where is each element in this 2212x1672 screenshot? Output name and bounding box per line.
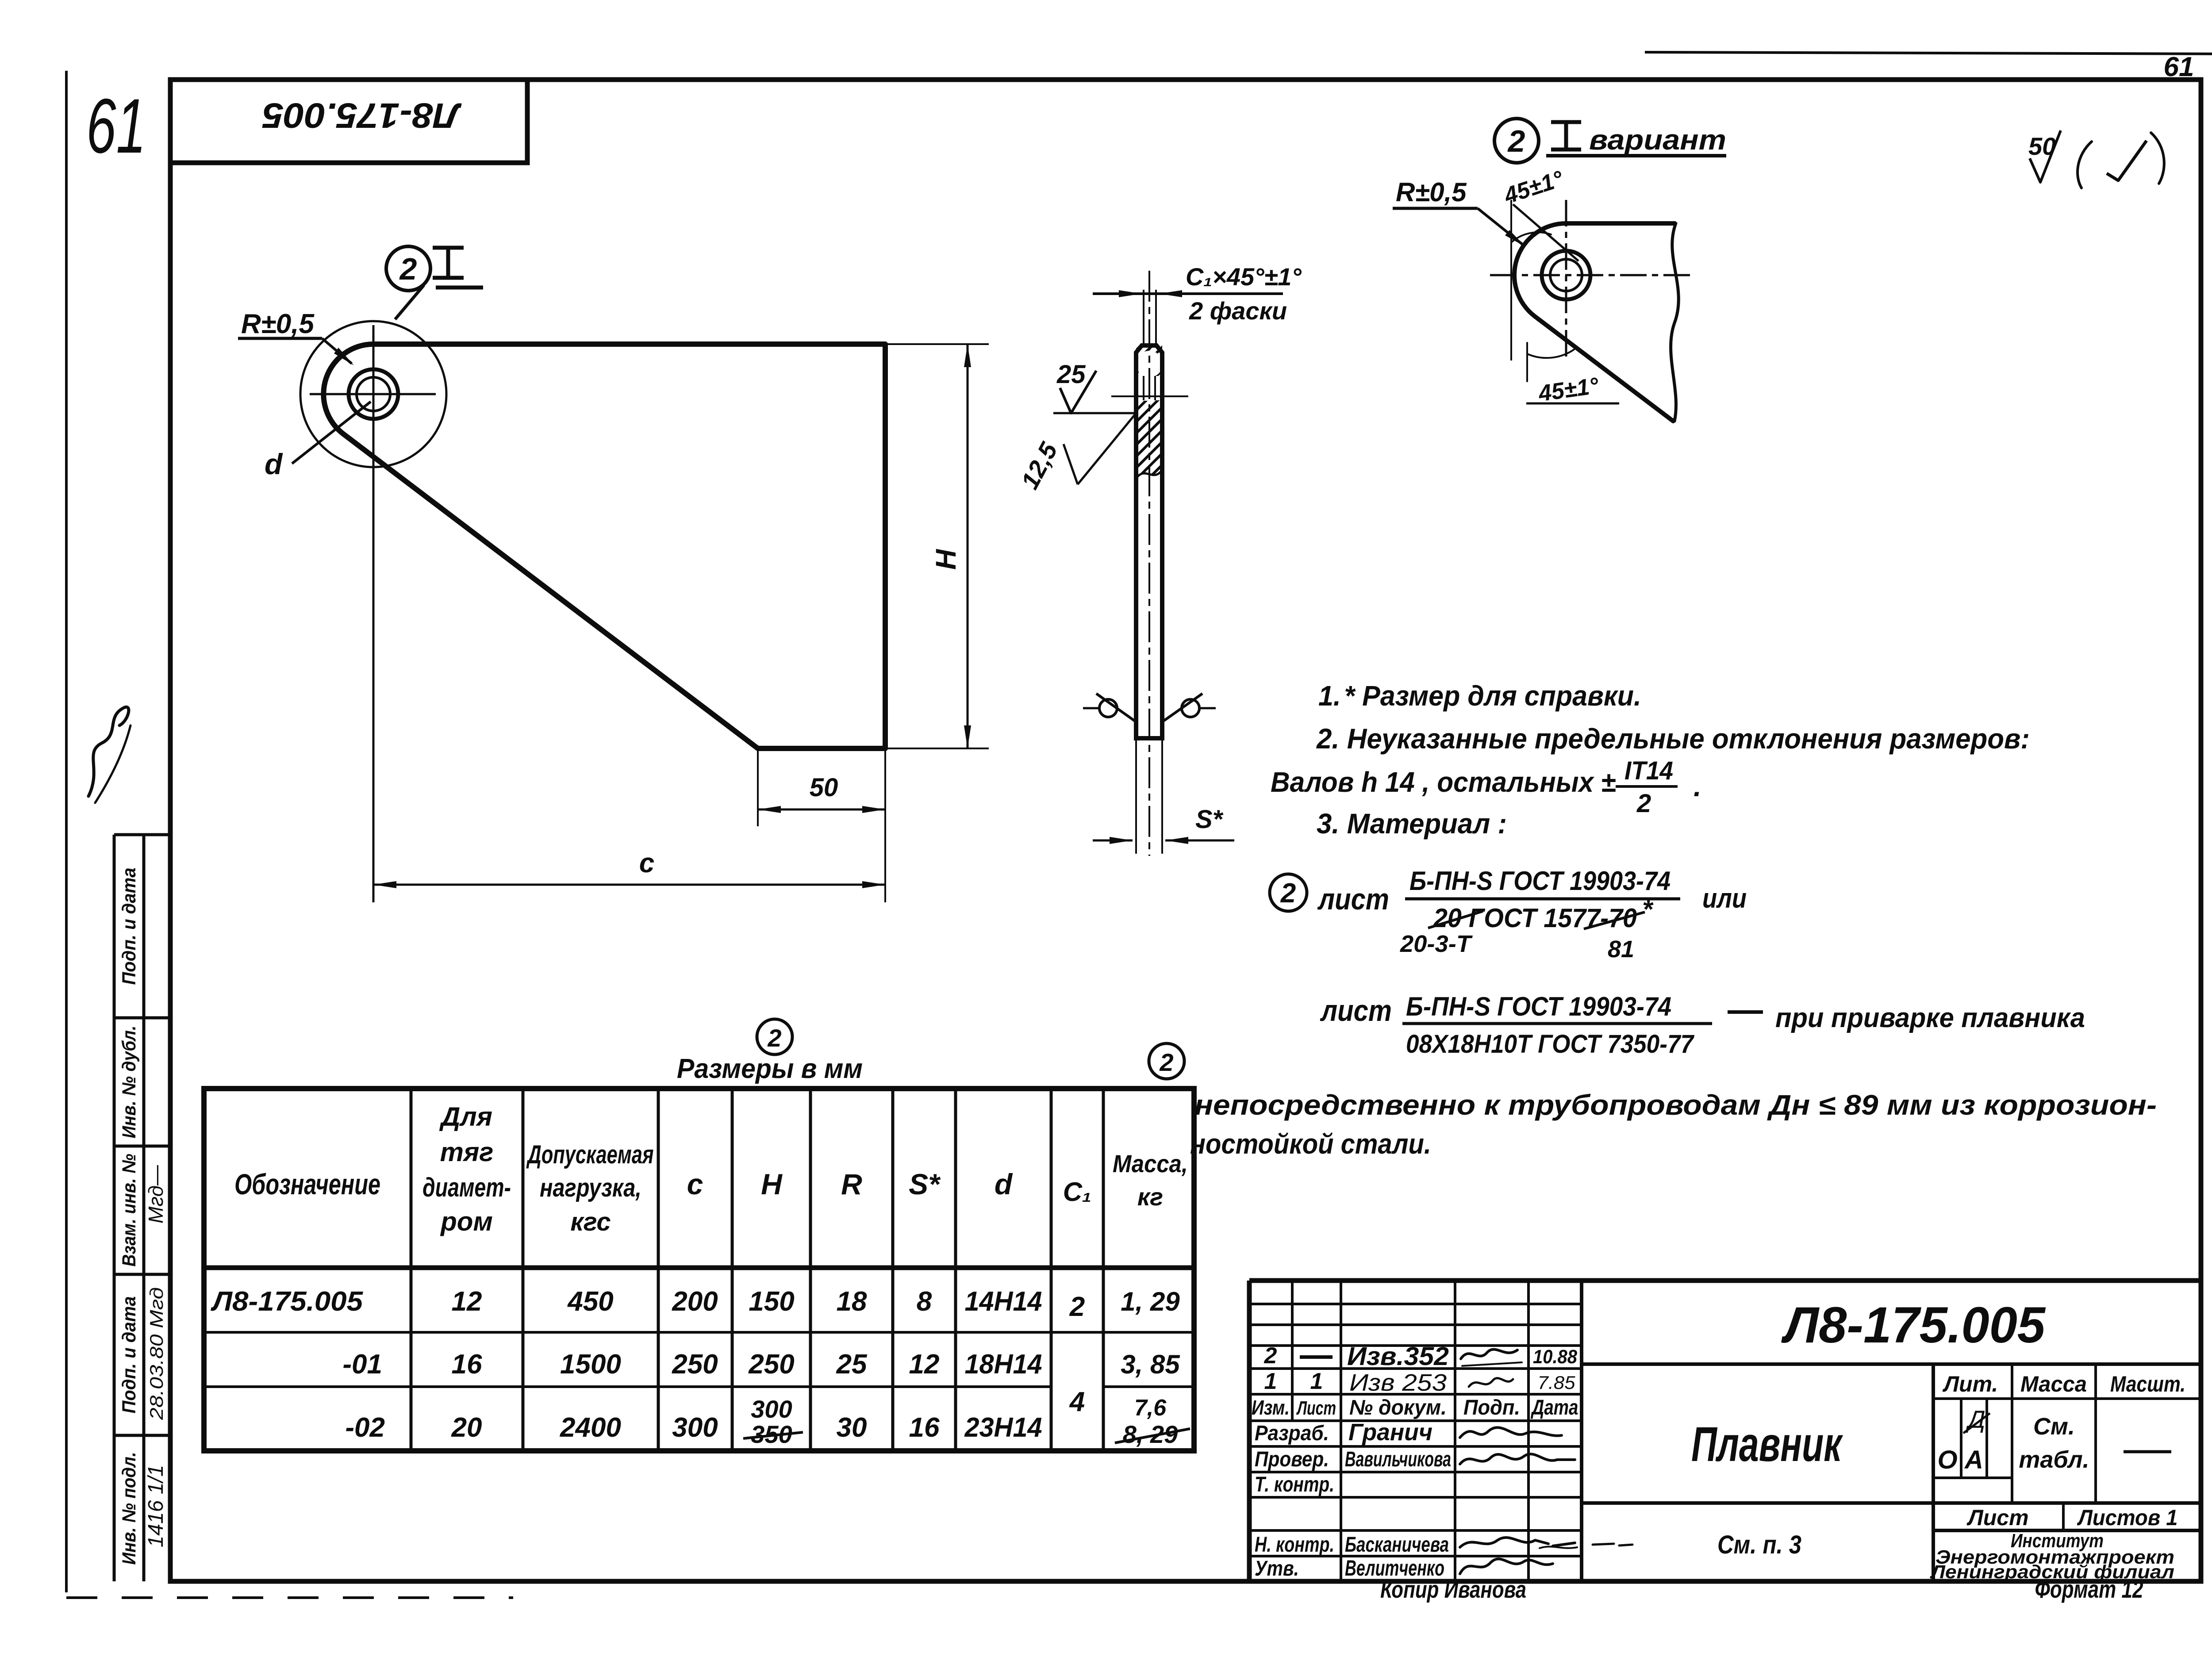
svg-text:Л8-175.005: Л8-175.005 bbox=[211, 1286, 364, 1317]
svg-text:C₁×45°±1°: C₁×45°±1° bbox=[1186, 263, 1302, 291]
svg-text:Дата: Дата bbox=[1530, 1396, 1578, 1419]
svg-text:Инв. № подл.: Инв. № подл. bbox=[119, 1452, 140, 1565]
svg-text:7,6: 7,6 bbox=[1134, 1395, 1167, 1421]
svg-text:Допускаемая: Допускаемая bbox=[526, 1140, 654, 1169]
svg-text:Провер.: Провер. bbox=[1255, 1448, 1329, 1471]
svg-text:Изв 253: Изв 253 bbox=[1349, 1369, 1447, 1396]
svg-text:18Н14: 18Н14 bbox=[965, 1349, 1042, 1380]
svg-text:Лист: Лист bbox=[1296, 1397, 1336, 1419]
svg-text:при приварке плавника: при приварке плавника bbox=[1775, 1003, 2085, 1033]
svg-text:кг: кг bbox=[1137, 1183, 1163, 1211]
svg-text:ром: ром bbox=[440, 1207, 493, 1236]
svg-text:Размеры в мм: Размеры в мм bbox=[677, 1054, 863, 1084]
svg-text:20: 20 bbox=[451, 1412, 482, 1443]
svg-text:20-3-Т: 20-3-Т bbox=[1400, 931, 1473, 957]
svg-text:45±1°: 45±1° bbox=[1536, 373, 1601, 407]
svg-text:табл.: табл. bbox=[2019, 1446, 2089, 1473]
svg-text:1.* Размер для справки.: 1.* Размер для справки. bbox=[1318, 680, 1641, 712]
svg-text:S*: S* bbox=[909, 1168, 941, 1200]
svg-text:12,5: 12,5 bbox=[1015, 437, 1063, 494]
svg-text:25: 25 bbox=[1056, 360, 1086, 389]
svg-text:.: . bbox=[1694, 771, 1701, 802]
svg-text:№ докум.: № докум. bbox=[1349, 1396, 1447, 1419]
svg-text:тяг: тяг bbox=[440, 1137, 494, 1167]
svg-text:Копир Иванова: Копир Иванова bbox=[1380, 1576, 1526, 1603]
svg-text:3, 85: 3, 85 bbox=[1121, 1350, 1180, 1379]
svg-text:S*: S* bbox=[1195, 805, 1224, 834]
svg-text:2: 2 bbox=[399, 252, 417, 286]
svg-text:8, 29: 8, 29 bbox=[1123, 1420, 1178, 1448]
svg-text:нагрузка,: нагрузка, bbox=[540, 1173, 641, 1202]
svg-text:*: * bbox=[1642, 894, 1654, 924]
svg-text:Инв. № дубл.: Инв. № дубл. bbox=[119, 1026, 140, 1139]
svg-text:12: 12 bbox=[452, 1286, 482, 1317]
svg-text:Обозначение: Обозначение bbox=[234, 1168, 380, 1200]
svg-text:16: 16 bbox=[909, 1412, 940, 1443]
svg-text:1, 29: 1, 29 bbox=[1121, 1287, 1180, 1316]
svg-text:200: 200 bbox=[672, 1286, 718, 1317]
svg-text:16: 16 bbox=[452, 1349, 482, 1380]
svg-text:Подп.: Подп. bbox=[1463, 1396, 1520, 1419]
svg-text:Для: Для bbox=[439, 1102, 492, 1131]
svg-text:Лит.: Лит. bbox=[1943, 1372, 1998, 1396]
svg-text:лист: лист bbox=[1320, 994, 1392, 1028]
svg-text:2 фаски: 2 фаски bbox=[1189, 297, 1287, 325]
svg-text:18: 18 bbox=[837, 1286, 867, 1317]
svg-text:Подп. и дата: Подп. и дата bbox=[119, 868, 140, 985]
svg-text:Лист: Лист bbox=[1966, 1505, 2028, 1530]
svg-text:лист: лист bbox=[1317, 882, 1389, 916]
svg-text:R±0,5: R±0,5 bbox=[1396, 177, 1467, 207]
svg-text:диамет-: диамет- bbox=[422, 1173, 511, 1202]
svg-text:Басканичева: Басканичева bbox=[1345, 1533, 1449, 1557]
svg-text:Разраб.: Разраб. bbox=[1255, 1422, 1329, 1445]
svg-text:50: 50 bbox=[810, 773, 838, 802]
svg-text:См.: См. bbox=[2033, 1413, 2075, 1440]
svg-text:1: 1 bbox=[1264, 1369, 1277, 1394]
svg-text:Н. контр.: Н. контр. bbox=[1255, 1533, 1334, 1557]
svg-text:2: 2 bbox=[1069, 1292, 1085, 1322]
svg-text:7.85: 7.85 bbox=[1538, 1372, 1576, 1393]
svg-text:2: 2 bbox=[1159, 1048, 1173, 1076]
svg-text:Утв.: Утв. bbox=[1255, 1557, 1299, 1580]
svg-text:Б-ПН-S ГОСТ 19903-74: Б-ПН-S ГОСТ 19903-74 bbox=[1406, 992, 1671, 1021]
svg-text:150: 150 bbox=[749, 1286, 794, 1317]
svg-text:Изм.: Изм. bbox=[1252, 1396, 1290, 1419]
svg-text:Б-ПН-S ГОСТ 19903-74: Б-ПН-S ГОСТ 19903-74 bbox=[1409, 866, 1671, 896]
svg-text:1: 1 bbox=[1310, 1369, 1323, 1394]
svg-text:61: 61 bbox=[86, 83, 146, 169]
svg-text:R±0,5: R±0,5 bbox=[241, 309, 315, 339]
svg-text:300: 300 bbox=[672, 1412, 718, 1443]
svg-text:8: 8 bbox=[917, 1286, 932, 1317]
svg-text:2: 2 bbox=[1507, 124, 1525, 158]
svg-text:Формат 12: Формат 12 bbox=[2035, 1575, 2143, 1603]
svg-text:d: d bbox=[265, 448, 283, 480]
svg-text:непосредственно к трубопрово: непосредственно к трубопроводам Дн ≤ 89 … bbox=[1194, 1089, 2157, 1121]
svg-text:Гранич: Гранич bbox=[1348, 1419, 1432, 1446]
svg-text:45±1°: 45±1° bbox=[1501, 166, 1567, 209]
svg-text:Вавильчикова: Вавильчикова bbox=[1345, 1448, 1451, 1471]
svg-text:2: 2 bbox=[1636, 789, 1651, 818]
svg-text:250: 250 bbox=[672, 1349, 718, 1380]
svg-text:30: 30 bbox=[837, 1412, 867, 1443]
svg-text:250: 250 bbox=[748, 1349, 794, 1380]
svg-text:2: 2 bbox=[767, 1024, 781, 1052]
svg-text:1500: 1500 bbox=[560, 1349, 621, 1380]
svg-text:Подп. и дата: Подп. и дата bbox=[119, 1296, 140, 1414]
svg-text:25: 25 bbox=[836, 1349, 868, 1380]
svg-text:4: 4 bbox=[1069, 1387, 1085, 1417]
svg-text:14Н14: 14Н14 bbox=[965, 1286, 1042, 1317]
svg-text:2400: 2400 bbox=[560, 1412, 621, 1443]
svg-text:Листов 1: Листов 1 bbox=[2077, 1505, 2178, 1530]
svg-text:Л8-175.005: Л8-175.005 bbox=[262, 96, 462, 135]
svg-text:28.03.80 Мгд: 28.03.80 Мгд bbox=[146, 1287, 167, 1420]
svg-text:c: c bbox=[687, 1168, 703, 1200]
svg-text:Мгд—: Мгд— bbox=[144, 1165, 167, 1223]
svg-text:H: H bbox=[761, 1168, 783, 1200]
svg-text:ностойкой стали.: ностойкой стали. bbox=[1190, 1128, 1431, 1160]
svg-text:-01: -01 bbox=[342, 1349, 382, 1380]
svg-text:IT14: IT14 bbox=[1624, 756, 1673, 785]
svg-text:450: 450 bbox=[567, 1286, 613, 1317]
svg-text:08Х18Н10Т ГОСТ 7350-77: 08Х18Н10Т ГОСТ 7350-77 bbox=[1406, 1030, 1695, 1058]
svg-text:или: или bbox=[1702, 883, 1747, 914]
svg-text:C₁: C₁ bbox=[1063, 1177, 1091, 1207]
svg-text:1416 1/1: 1416 1/1 bbox=[144, 1465, 168, 1548]
svg-text:вариант: вариант bbox=[1589, 124, 1726, 156]
svg-text:d: d bbox=[995, 1168, 1013, 1200]
svg-text:Т. контр.: Т. контр. bbox=[1255, 1473, 1334, 1496]
svg-text:Масса,: Масса, bbox=[1113, 1150, 1188, 1177]
svg-text:См. п. 3: См. п. 3 bbox=[1717, 1530, 1801, 1559]
svg-text:А: А bbox=[1964, 1446, 1983, 1474]
svg-text:Масса: Масса bbox=[2020, 1372, 2087, 1396]
svg-text:300: 300 bbox=[751, 1395, 792, 1423]
svg-text:Масшт.: Масшт. bbox=[2110, 1372, 2185, 1396]
svg-text:2: 2 bbox=[1264, 1343, 1277, 1369]
svg-text:-02: -02 bbox=[345, 1412, 385, 1443]
svg-text:10.88: 10.88 bbox=[1533, 1346, 1577, 1368]
svg-text:12: 12 bbox=[909, 1349, 940, 1380]
svg-text:2. Неуказанные предельные от: 2. Неуказанные предельные отклонения раз… bbox=[1316, 723, 2030, 755]
svg-text:Валов h 14 , остальных ±: Валов h 14 , остальных ± bbox=[1271, 766, 1616, 798]
svg-text:Л8-175.005: Л8-175.005 bbox=[1781, 1297, 2046, 1354]
svg-text:H: H bbox=[930, 548, 962, 570]
svg-text:61: 61 bbox=[2164, 52, 2194, 82]
svg-text:Взам. инв. №: Взам. инв. № bbox=[119, 1154, 140, 1267]
svg-text:c: c bbox=[639, 848, 654, 878]
svg-text:О: О bbox=[1937, 1446, 1957, 1474]
svg-text:кгс: кгс bbox=[570, 1208, 611, 1236]
svg-text:81: 81 bbox=[1608, 936, 1634, 963]
svg-text:R: R bbox=[841, 1168, 862, 1200]
svg-text:Плавник: Плавник bbox=[1691, 1417, 1843, 1472]
svg-text:3. Материал :: 3. Материал : bbox=[1317, 808, 1507, 840]
svg-text:23Н14: 23Н14 bbox=[964, 1412, 1042, 1443]
svg-text:Изв.352: Изв.352 bbox=[1347, 1342, 1449, 1371]
svg-text:2: 2 bbox=[1280, 878, 1296, 909]
